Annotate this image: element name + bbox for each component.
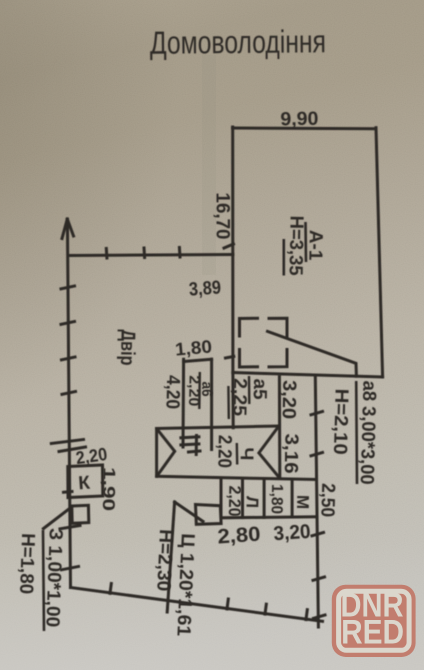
dashed square top-left corner: [240, 318, 258, 336]
H=3,35 underline: [282, 239, 285, 276]
triangle right-pointing in Ch: [157, 429, 175, 476]
bottom light band: [0, 0, 1, 1]
house A-1 bottom wall: [233, 373, 383, 378]
svg-text:3,20: 3,20: [273, 521, 311, 546]
structure C long wall: [167, 502, 174, 612]
dashed square bottom-right corner: [269, 350, 287, 367]
svg-text:Ч: Ч: [237, 447, 258, 460]
svg-text:А-1: А-1: [304, 230, 326, 261]
room Ch right wall + a5 right wall: [278, 377, 281, 478]
wall x242: [241, 479, 244, 517]
M-L row bottom wall: [221, 517, 316, 518]
svg-text:М: М: [293, 495, 312, 510]
svg-text:2,20: 2,20: [213, 435, 235, 468]
fold shadow left of house: [202, 55, 216, 275]
dashed square bottom-left corner: [240, 350, 258, 368]
room Ch rect left: [155, 429, 158, 477]
bottom boundary tick x265: [265, 604, 266, 614]
house A-1 top wall: [233, 127, 377, 131]
svg-text:Н=2,10: Н=2,10: [329, 388, 352, 455]
svg-text:Н=1,80: Н=1,80: [15, 533, 38, 595]
K square corner tick: [64, 490, 73, 494]
a6 underline: [198, 372, 201, 409]
a6 strip top: [184, 359, 212, 361]
Ch underline: [236, 443, 239, 465]
svg-text:Домоволодіння: Домоволодіння: [150, 23, 326, 61]
svg-text:1,80: 1,80: [174, 336, 213, 359]
svg-text:RED: RED: [341, 614, 404, 652]
bottom boundary tick x110: [110, 584, 111, 594]
svg-text:16,70: 16,70: [212, 193, 233, 240]
structure K square: [68, 465, 103, 498]
a8 left wall (long vertical): [315, 376, 318, 627]
tick a8 wall y616: [314, 615, 326, 618]
svg-text:9,90: 9,90: [280, 109, 318, 131]
wall x221: [220, 479, 223, 518]
svg-text:1,90: 1,90: [99, 467, 119, 511]
yard line tick x144: [143, 248, 147, 258]
wall x264: [263, 480, 266, 518]
well Z flag diagonal: [43, 507, 71, 529]
bottom plot boundary: [71, 588, 323, 622]
svg-text:3,16: 3,16: [280, 433, 302, 473]
tick a8 wall y578: [313, 577, 325, 580]
boundary tick y287: [61, 286, 75, 289]
A-1 underline: [304, 222, 307, 262]
boundary tick y322: [61, 322, 75, 325]
left plot boundary: [67, 220, 70, 588]
svg-text:2,50: 2,50: [316, 483, 338, 518]
dimension tick on left wall y357: [226, 356, 234, 358]
a6 strip right wall: [210, 359, 213, 449]
steps small vertical: [195, 436, 198, 455]
svg-text:4,20: 4,20: [162, 375, 184, 409]
triangle left-pointing in Ch: [259, 427, 279, 478]
bottom boundary tick x227: [227, 599, 228, 609]
a5 left wall: [231, 373, 234, 428]
svg-text:а8 3,00*3,00: а8 3,00*3,00: [356, 380, 380, 485]
2,25 underline: [227, 386, 230, 419]
svg-text:К: К: [78, 473, 91, 495]
svg-text:Н=3,35: Н=3,35: [285, 215, 307, 276]
svg-text:1,80: 1,80: [268, 484, 286, 514]
DNR RED watermark badge: [332, 585, 416, 657]
tick a8 wall y454: [311, 453, 323, 456]
house A-1 right wall: [376, 128, 383, 377]
boundary arrow barb left: [62, 219, 67, 239]
svg-text:3,20: 3,20: [278, 380, 300, 419]
well Z small square: [72, 505, 89, 523]
diagonal from dashed square to a8: [268, 331, 357, 376]
steps rung 1: [181, 437, 199, 438]
structure C rect: [196, 505, 222, 525]
boundary tick y568: [62, 567, 79, 570]
Z underline: [43, 530, 44, 631]
M-L row top wall: [157, 476, 317, 479]
yard line tick x106: [105, 249, 109, 259]
house A-1 left wall: [231, 127, 234, 373]
boundary break mark 2: [59, 447, 86, 452]
a8 underline: [355, 381, 358, 484]
dashed square top-right corner: [269, 318, 287, 336]
wall x292: [291, 480, 294, 517]
boundary tick y392: [62, 392, 76, 395]
top yard line: [68, 255, 233, 256]
bottom boundary tick x306: [306, 610, 307, 620]
boundary tick y527: [60, 526, 80, 529]
boundary break mark 1: [51, 440, 83, 444]
svg-text:3,89: 3,89: [188, 277, 221, 300]
svg-text:Н=2,30: Н=2,30: [152, 529, 176, 592]
a6 strip left wall: [182, 359, 186, 447]
svg-text:2,25: 2,25: [228, 378, 250, 417]
yard line tick x179: [178, 248, 182, 258]
room Ch rect top: [157, 426, 279, 429]
tick a8 wall y534: [312, 533, 324, 536]
steps rung 2: [181, 444, 199, 445]
svg-text:2,20: 2,20: [225, 485, 245, 516]
svg-text:Двір: Двір: [116, 329, 139, 365]
structure C diagonal: [175, 502, 203, 521]
svg-text:Л: Л: [242, 496, 261, 508]
dimension tick below 16,70: [224, 244, 234, 248]
svg-text:2,80: 2,80: [217, 523, 261, 549]
steps small horizontal: [189, 451, 201, 452]
boundary tick y358: [62, 357, 76, 360]
svg-text:а5: а5: [249, 378, 270, 400]
boundary arrow barb right: [67, 219, 73, 236]
a5 underline: [248, 376, 251, 404]
tick a8 wall y413: [311, 412, 323, 415]
